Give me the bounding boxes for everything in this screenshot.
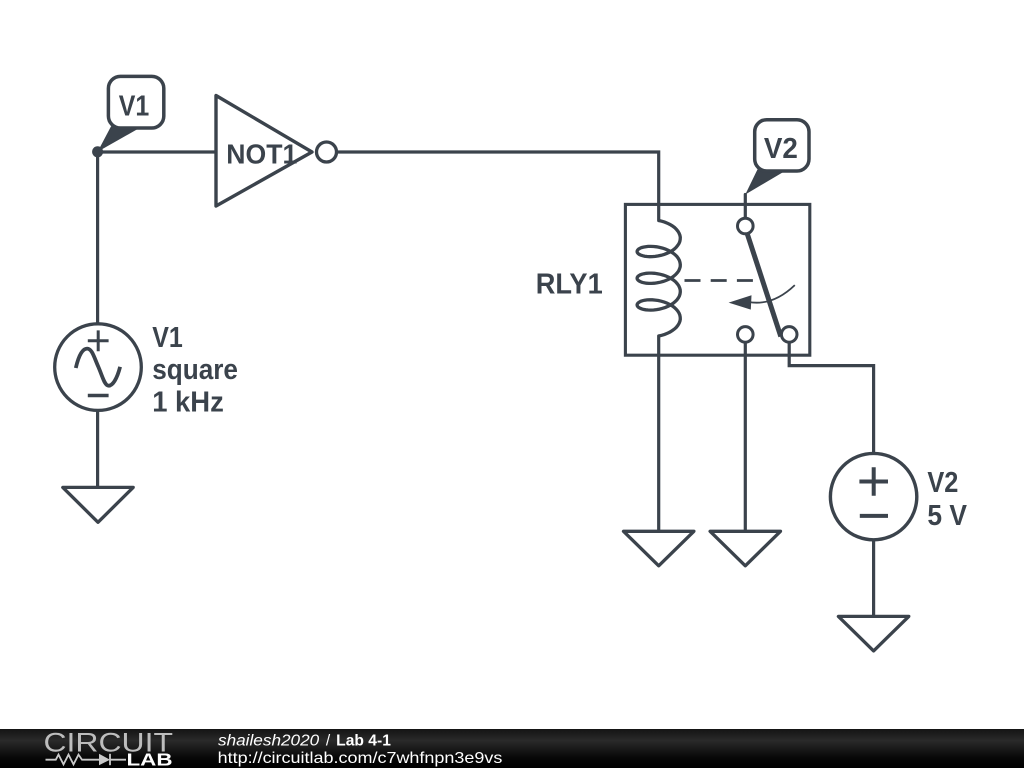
relay pin circle common — [738, 218, 754, 234]
CircuitLab logo wordmark CIRCUIT — [44, 728, 174, 758]
svg-text:V1: V1 — [152, 322, 183, 354]
relay coil — [637, 221, 680, 337]
svg-text:V1: V1 — [119, 91, 150, 123]
wire node A down to V1 source — [96, 152, 99, 324]
relay pin circle NC — [738, 327, 754, 343]
wire NC pin to ground — [744, 342, 747, 531]
ground (below relay NC pin) — [710, 531, 780, 566]
relay actuation arrow — [729, 285, 795, 310]
wire V1 source to ground — [96, 410, 99, 487]
ground (below V1) — [63, 487, 133, 522]
ground (below relay coil) — [624, 531, 694, 566]
relay label RLY1 — [536, 269, 603, 301]
relay switch arm — [747, 234, 781, 337]
svg-text:5 V: 5 V — [927, 500, 967, 532]
wire coil bottom to ground — [657, 336, 660, 531]
CircuitLab logo resistor-diode glyph — [46, 754, 127, 765]
wire V2 flag stub to common pin — [744, 195, 747, 219]
wire node A to NOT1 input — [98, 150, 216, 153]
V1 value label — [152, 322, 238, 419]
svg-text:/: / — [326, 732, 331, 749]
V2 value label — [927, 467, 967, 532]
net flag V2 — [745, 120, 809, 195]
svg-text:V2: V2 — [764, 133, 798, 165]
svg-text:http://circuitlab.com/c7whfnpn: http://circuitlab.com/c7whfnpn3e9vs — [218, 750, 503, 767]
svg-text:square: square — [152, 354, 238, 386]
node A junction dot — [92, 146, 103, 157]
relay RLY1 body — [625, 204, 809, 355]
svg-text:Lab 4-1: Lab 4-1 — [336, 732, 391, 749]
footer bar — [0, 729, 1024, 768]
svg-text:shailesh2020: shailesh2020 — [218, 732, 320, 749]
svg-text:V2: V2 — [927, 467, 958, 499]
relay dashed link — [685, 279, 754, 282]
wire NO pin to V2 source — [789, 342, 873, 453]
relay pin circle NO — [781, 327, 797, 343]
svg-text:LAB: LAB — [127, 749, 173, 768]
ground (below V2) — [838, 616, 908, 651]
svg-text:RLY1: RLY1 — [536, 269, 603, 301]
wire NOT1 output to relay coil top — [338, 152, 659, 221]
net flag V1 — [98, 76, 164, 151]
svg-text:1 kHz: 1 kHz — [152, 387, 224, 419]
svg-text:NOT1: NOT1 — [226, 139, 297, 170]
wire V2 source to ground — [872, 540, 875, 617]
CircuitLab logo wordmark LAB — [127, 749, 173, 768]
voltage source V1 (square wave) — [55, 324, 142, 411]
inverter NOT1 — [216, 96, 337, 207]
footer title line — [218, 732, 503, 767]
voltage source V2 (DC) — [830, 453, 916, 539]
